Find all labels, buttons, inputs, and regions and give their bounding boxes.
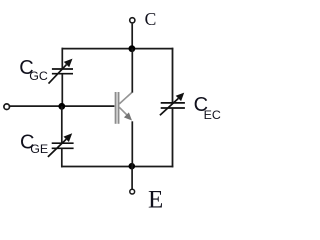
svg-text:C: C xyxy=(145,9,157,29)
node top junction xyxy=(129,45,136,52)
node gate junction xyxy=(58,103,65,110)
transistor Q1 collector diagonal xyxy=(119,92,133,104)
wire top rail xyxy=(62,48,174,50)
capacitor C_GE xyxy=(48,133,74,157)
wire C_GC lower xyxy=(61,74,63,107)
terminal C (collector, open circle) xyxy=(130,18,135,23)
svg-text:GC: GC xyxy=(29,69,48,83)
wire collector stub xyxy=(131,24,133,49)
wire right rail upper xyxy=(172,48,174,103)
svg-text:EC: EC xyxy=(204,108,221,122)
wire C_GE upper xyxy=(61,106,63,143)
wire bottom rail xyxy=(61,166,173,168)
terminal G (gate, open circle) xyxy=(4,104,10,110)
wire gate xyxy=(10,105,115,107)
capacitor C_GC xyxy=(49,59,74,84)
wire C_GE lower xyxy=(61,148,63,167)
wire collector lead xyxy=(131,49,133,93)
capacitor C_EC xyxy=(160,93,185,116)
terminal E (emitter, open circle) xyxy=(130,189,135,194)
wire emitter stub xyxy=(131,167,133,190)
transistor Q1 emitter diagonal with arrow xyxy=(119,107,132,120)
wire C_GC upper xyxy=(61,48,63,69)
svg-text:E: E xyxy=(148,186,163,213)
node bottom junction xyxy=(129,163,136,170)
wire emitter lead xyxy=(131,121,133,166)
transistor Q1 (IGBT) gate bars xyxy=(116,92,119,124)
wire right rail lower xyxy=(172,108,174,167)
svg-text:GE: GE xyxy=(30,142,48,156)
